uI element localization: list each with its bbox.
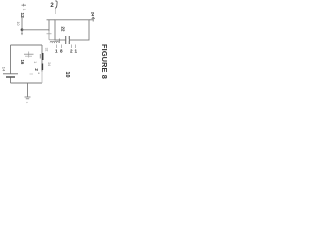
- capacitor in box bottom edge: [66, 36, 70, 44]
- output terminal arrow: [92, 17, 95, 21]
- svg-text:8: 8: [60, 49, 63, 54]
- svg-text:34: 34: [47, 62, 51, 66]
- svg-text:16: 16: [20, 60, 25, 65]
- wire junction to mid vertical: [22, 29, 49, 31]
- svg-text:22: 22: [60, 27, 65, 32]
- svg-text:FIGURE 8: FIGURE 8: [100, 44, 109, 79]
- svg-text:2: 2: [70, 49, 73, 54]
- svg-text:14: 14: [1, 67, 6, 72]
- lower-left loop: left edge upper: [10, 45, 12, 74]
- labels 18 under capacitor left: [55, 49, 63, 54]
- interior tick in loop: [28, 52, 30, 58]
- battery short plate: [6, 76, 15, 78]
- wire to box top-left: [47, 19, 56, 21]
- electrode plate upper-left on right edge: [39, 54, 41, 59]
- mid vertical wire: [48, 20, 50, 31]
- stub with arrowhead below junction: [21, 30, 23, 35]
- svg-text:1: 1: [55, 49, 58, 54]
- box 22 (top-right block): [55, 20, 89, 40]
- battery long plate: [3, 73, 18, 75]
- labels 21 under capacitor right: [70, 49, 78, 54]
- lower-left loop: right edge upper: [41, 45, 43, 72]
- background: [0, 0, 111, 120]
- wire from crystal down to junction: [21, 18, 23, 31]
- svg-text:12: 12: [19, 13, 25, 19]
- svg-text:1: 1: [22, 9, 26, 11]
- tick below interior label: [30, 73, 34, 75]
- lower-left loop: left edge lower: [10, 78, 12, 84]
- lower-left loop: top edge: [11, 44, 43, 46]
- electrode bar lower on right edge: [41, 64, 43, 71]
- wire tick above inductor node: [47, 33, 52, 35]
- interior capacitor plates: [24, 54, 34, 56]
- electrode bar upper on right edge: [42, 53, 44, 60]
- svg-text:10: 10: [16, 22, 20, 26]
- ground symbol: [25, 97, 31, 99]
- svg-text:1: 1: [75, 49, 78, 54]
- inductor squiggle under wire: [50, 39, 59, 44]
- lower-left loop: bottom edge: [11, 82, 43, 84]
- terminal tick at top of crystal branch: [22, 4, 27, 7]
- output wire right of box: [89, 19, 94, 21]
- svg-text:10: 10: [64, 72, 70, 78]
- svg-text:32: 32: [45, 48, 49, 52]
- wire to box bottom-left: [49, 39, 55, 41]
- ground stub below loop: [27, 83, 29, 97]
- small mark near loop lower right: [38, 73, 39, 74]
- lower-left loop: right edge lower (faint): [41, 72, 43, 84]
- node junction dot: [21, 28, 24, 31]
